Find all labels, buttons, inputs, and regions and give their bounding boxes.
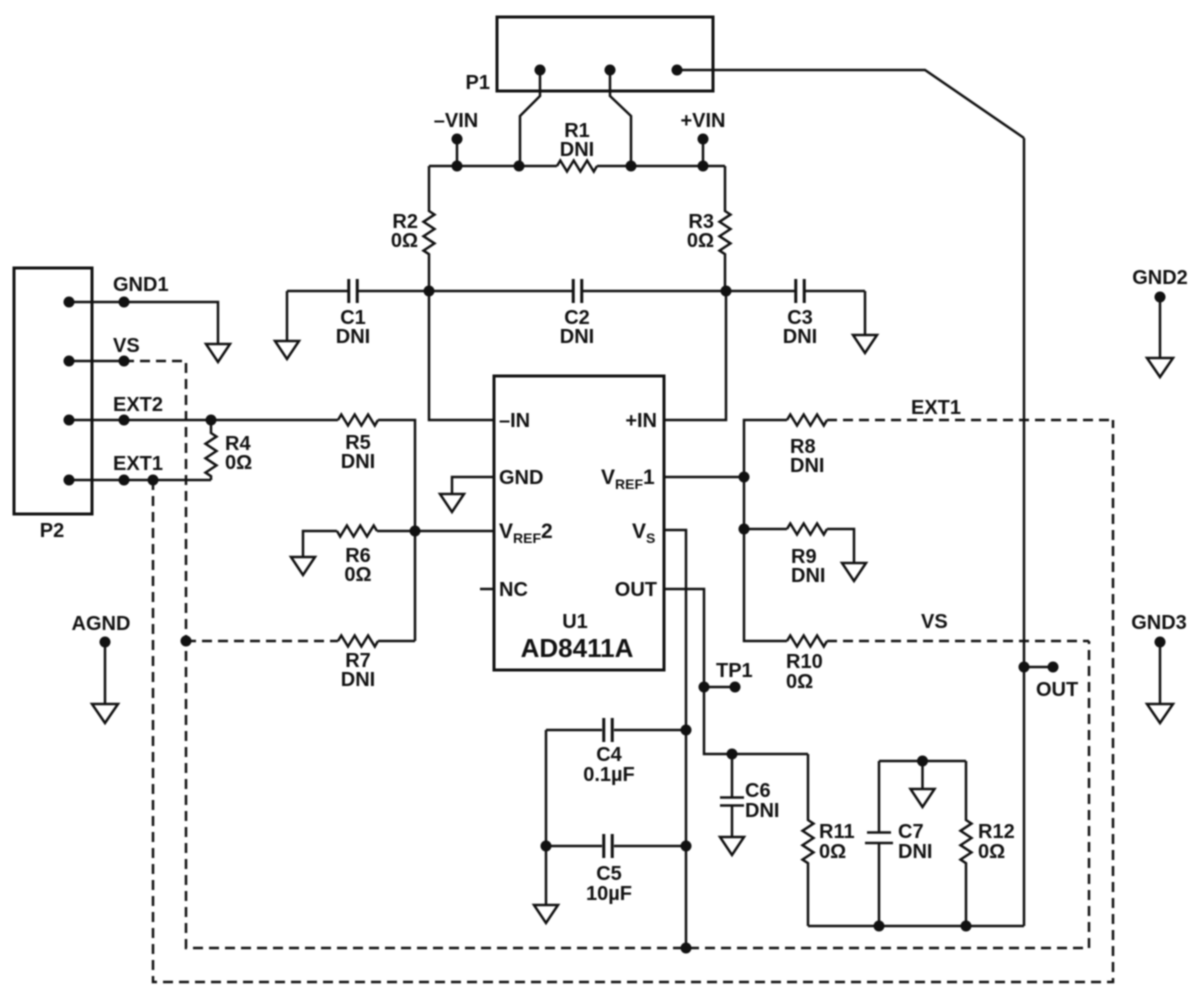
wire -IN from C-rail xyxy=(429,291,494,420)
node EXT1 dashed branch xyxy=(148,475,159,486)
node GND2 xyxy=(1155,292,1166,303)
svg-text:DNI: DNI xyxy=(783,326,817,348)
wire top rail left xyxy=(429,165,557,168)
node VS xyxy=(119,356,130,367)
capacitor C3 xyxy=(796,279,805,303)
wire R5 to VREF2 vertical xyxy=(378,420,415,531)
wire C1 ground stem xyxy=(286,291,289,341)
wire R6 to ground xyxy=(303,531,337,557)
resistor R4 xyxy=(206,420,217,480)
wire P1 pin1 to R1 left xyxy=(520,70,540,166)
node +VIN xyxy=(698,134,709,145)
resistor R5 xyxy=(338,415,378,426)
svg-text:OUT: OUT xyxy=(1036,679,1078,701)
node OUT terminal xyxy=(1048,662,1059,673)
junction C5 right xyxy=(681,841,692,852)
wire P1 pin3 to OUT vertical xyxy=(677,70,1024,138)
ground at C6 xyxy=(720,837,744,855)
svg-text:R10: R10 xyxy=(786,651,823,673)
node GND1 xyxy=(119,297,130,308)
wire VREF2 to junction xyxy=(415,530,494,533)
ground at U1 GND xyxy=(440,494,464,512)
svg-text:VS: VS xyxy=(113,335,140,357)
capacitor C4 xyxy=(604,718,613,742)
resistor R9 xyxy=(787,524,827,535)
wire U1 GND pin to ground xyxy=(452,477,494,494)
wire VS net dashed left xyxy=(124,361,1089,948)
junction top rail at -VIN xyxy=(452,161,463,172)
junction R9 xyxy=(739,524,750,535)
wire C4-C5 left vertical xyxy=(545,730,548,846)
wire EXT1 xyxy=(69,479,211,482)
svg-text:OUT: OUT xyxy=(615,579,657,601)
capacitor C7 xyxy=(865,761,893,926)
resistor R10 xyxy=(787,636,827,647)
svg-text:DNI: DNI xyxy=(745,800,779,822)
pin GND1 of P2 xyxy=(64,297,75,308)
svg-text:10µF: 10µF xyxy=(586,883,632,905)
svg-text:0Ω: 0Ω xyxy=(819,841,846,863)
resistor R3 xyxy=(720,166,731,291)
ground at GND1 xyxy=(206,344,230,362)
capacitor C2 xyxy=(573,279,582,303)
node TP1 terminal xyxy=(730,682,741,693)
junction VREF1 xyxy=(739,472,750,483)
svg-text:0.1µF: 0.1µF xyxy=(583,764,635,786)
pin EXT1 of P2 xyxy=(64,475,75,486)
ground at R9 xyxy=(842,563,866,581)
junction bottom rail at R12 xyxy=(961,921,972,932)
junction VS net bottom xyxy=(681,943,692,954)
svg-text:AD8411A: AD8411A xyxy=(521,633,634,663)
svg-text:0Ω: 0Ω xyxy=(978,841,1005,863)
svg-text:EXT1: EXT1 xyxy=(113,453,163,475)
ground GND2 xyxy=(1147,358,1173,377)
svg-text:C7: C7 xyxy=(898,821,924,843)
resistor R2 xyxy=(424,166,435,291)
wire EXT2 xyxy=(69,419,338,422)
junction top rail at pin1 xyxy=(514,161,525,172)
svg-text:0Ω: 0Ω xyxy=(391,230,418,252)
svg-text:DNI: DNI xyxy=(898,841,932,863)
wire R8 left lead xyxy=(744,420,787,477)
pin VS of P2 xyxy=(64,356,75,367)
junction C6 xyxy=(727,749,738,760)
junction C-rail left xyxy=(424,286,435,297)
wire C5 ground stem xyxy=(545,846,548,905)
svg-text:0Ω: 0Ω xyxy=(687,230,714,252)
junction C4 right xyxy=(681,725,692,736)
svg-text:C5: C5 xyxy=(596,863,622,885)
wire C7 top rail xyxy=(879,760,966,763)
wire VS pin down xyxy=(664,530,686,948)
wire C5 rail xyxy=(546,845,686,848)
wire +VIN stub xyxy=(702,139,705,166)
svg-text:0Ω: 0Ω xyxy=(786,671,813,693)
svg-text:C6: C6 xyxy=(745,780,771,802)
resistor R7 xyxy=(338,636,378,647)
capacitor C5 xyxy=(604,834,613,858)
svg-text:R12: R12 xyxy=(978,821,1015,843)
connector P1 xyxy=(497,17,713,91)
svg-text:GND: GND xyxy=(499,467,543,489)
resistor R1 xyxy=(557,161,597,172)
wire GND1 xyxy=(69,302,218,344)
svg-text:DNI: DNI xyxy=(341,669,375,691)
node GND3 xyxy=(1155,637,1166,648)
svg-text:AGND: AGND xyxy=(72,613,131,635)
junction TP1 xyxy=(699,682,710,693)
junction OUT node xyxy=(1019,662,1030,673)
wire VS pin stub xyxy=(69,360,124,363)
junction EXT2 at R4 xyxy=(206,415,217,426)
junction VREF2 xyxy=(410,526,421,537)
resistor R11 xyxy=(803,754,814,926)
wire -VIN stub xyxy=(456,139,459,166)
svg-text:0Ω: 0Ω xyxy=(225,452,252,474)
svg-text:VS: VS xyxy=(921,611,948,633)
resistor R8 xyxy=(787,415,827,426)
wire GND2 stem xyxy=(1159,297,1162,358)
wire R10 left lead xyxy=(744,529,787,641)
junction C5 left xyxy=(541,841,552,852)
wire C2 left segment xyxy=(429,290,572,293)
svg-text:VS: VS xyxy=(632,520,655,546)
ground at C7 top xyxy=(911,789,935,807)
ground at C3 xyxy=(853,335,877,353)
svg-text:–IN: –IN xyxy=(499,410,530,432)
svg-text:VREF2: VREF2 xyxy=(499,520,553,546)
svg-text:U1: U1 xyxy=(562,611,588,633)
svg-text:R11: R11 xyxy=(819,821,855,843)
svg-text:DNI: DNI xyxy=(341,451,375,473)
wire EXT1 net dashed from R8 xyxy=(827,419,1113,422)
wire C1 left segment xyxy=(287,290,348,293)
ground at C1 xyxy=(275,341,299,359)
resistor R6 xyxy=(337,526,415,537)
pin EXT2 of P2 xyxy=(64,415,75,426)
wire VREF1 xyxy=(664,476,744,479)
svg-text:TP1: TP1 xyxy=(716,660,753,682)
pin 3 of P1 xyxy=(672,65,683,76)
node EXT1 pin xyxy=(119,475,130,486)
svg-text:EXT2: EXT2 xyxy=(113,394,163,416)
node -VIN xyxy=(452,134,463,145)
junction top rail at +VIN xyxy=(698,161,709,172)
ground at C5 xyxy=(534,905,558,923)
wire GND3 stem xyxy=(1159,642,1162,704)
wire P1 pin2 to R1 right xyxy=(610,70,631,166)
pin 2 of P1 xyxy=(605,65,616,76)
wire C3 left segment xyxy=(726,290,795,293)
wire R7 right to VREF2 net xyxy=(378,531,415,641)
svg-text:DNI: DNI xyxy=(336,326,370,348)
svg-text:DNI: DNI xyxy=(560,326,594,348)
wire OUT vertical right side xyxy=(1023,138,1026,926)
wire OUT terminal xyxy=(1024,666,1053,669)
svg-text:GND2: GND2 xyxy=(1132,267,1188,289)
wire top rail right xyxy=(597,165,725,168)
node EXT2 xyxy=(119,415,130,426)
svg-text:P2: P2 xyxy=(40,520,64,542)
wire bottom rail xyxy=(808,925,1024,928)
svg-text:DNI: DNI xyxy=(560,139,594,161)
wire C3 ground stem xyxy=(864,291,867,335)
svg-text:GND1: GND1 xyxy=(113,274,169,296)
svg-text:DNI: DNI xyxy=(790,455,824,477)
wire R7 left dashed lead xyxy=(186,640,338,643)
resistor R12 xyxy=(961,761,972,926)
wire C4 rail xyxy=(546,729,686,732)
node AGND xyxy=(100,637,111,648)
junction C7 top xyxy=(917,756,928,767)
wire AGND stem xyxy=(104,642,107,704)
wire VS net dashed from R10 xyxy=(827,640,1089,643)
junction C-rail right xyxy=(721,286,732,297)
svg-text:GND3: GND3 xyxy=(1131,612,1187,634)
wire R9 to ground xyxy=(827,529,854,563)
junction bottom rail at C7 xyxy=(874,921,885,932)
wire C1 to R2 node xyxy=(358,290,429,293)
svg-text:EXT1: EXT1 xyxy=(911,397,961,419)
svg-text:+IN: +IN xyxy=(625,410,657,432)
wire C2 right segment xyxy=(583,290,726,293)
svg-text:C4: C4 xyxy=(596,744,622,766)
capacitor C6 xyxy=(720,754,744,837)
wire C3 right segment xyxy=(805,290,865,293)
ground AGND xyxy=(92,704,118,723)
svg-text:0Ω: 0Ω xyxy=(344,564,371,586)
ground at R6 xyxy=(291,557,315,575)
connector P2 xyxy=(14,268,92,514)
ground GND3 xyxy=(1147,704,1173,723)
svg-text:NC: NC xyxy=(499,579,528,601)
wire R9 left lead xyxy=(744,477,787,529)
svg-text:P1: P1 xyxy=(466,72,490,94)
pin 1 of P1 xyxy=(535,65,546,76)
wire C7 ground stem xyxy=(921,761,924,789)
wire OUT pin down xyxy=(664,589,808,754)
junction R7 left on VS dashed xyxy=(181,636,192,647)
svg-text:DNI: DNI xyxy=(791,565,825,587)
svg-text:+VIN: +VIN xyxy=(680,110,725,132)
capacitor C1 xyxy=(349,279,358,303)
wire +IN to C-rail xyxy=(664,291,726,420)
op-amp U1 AD8411A xyxy=(494,376,664,670)
wire EXT1 net dashed left xyxy=(153,420,1113,982)
wire TP1 xyxy=(704,686,735,689)
svg-text:VREF1: VREF1 xyxy=(601,466,655,492)
pin NC stub xyxy=(480,588,494,591)
svg-text:–VIN: –VIN xyxy=(434,110,478,132)
junction top rail at pin2 xyxy=(626,161,637,172)
